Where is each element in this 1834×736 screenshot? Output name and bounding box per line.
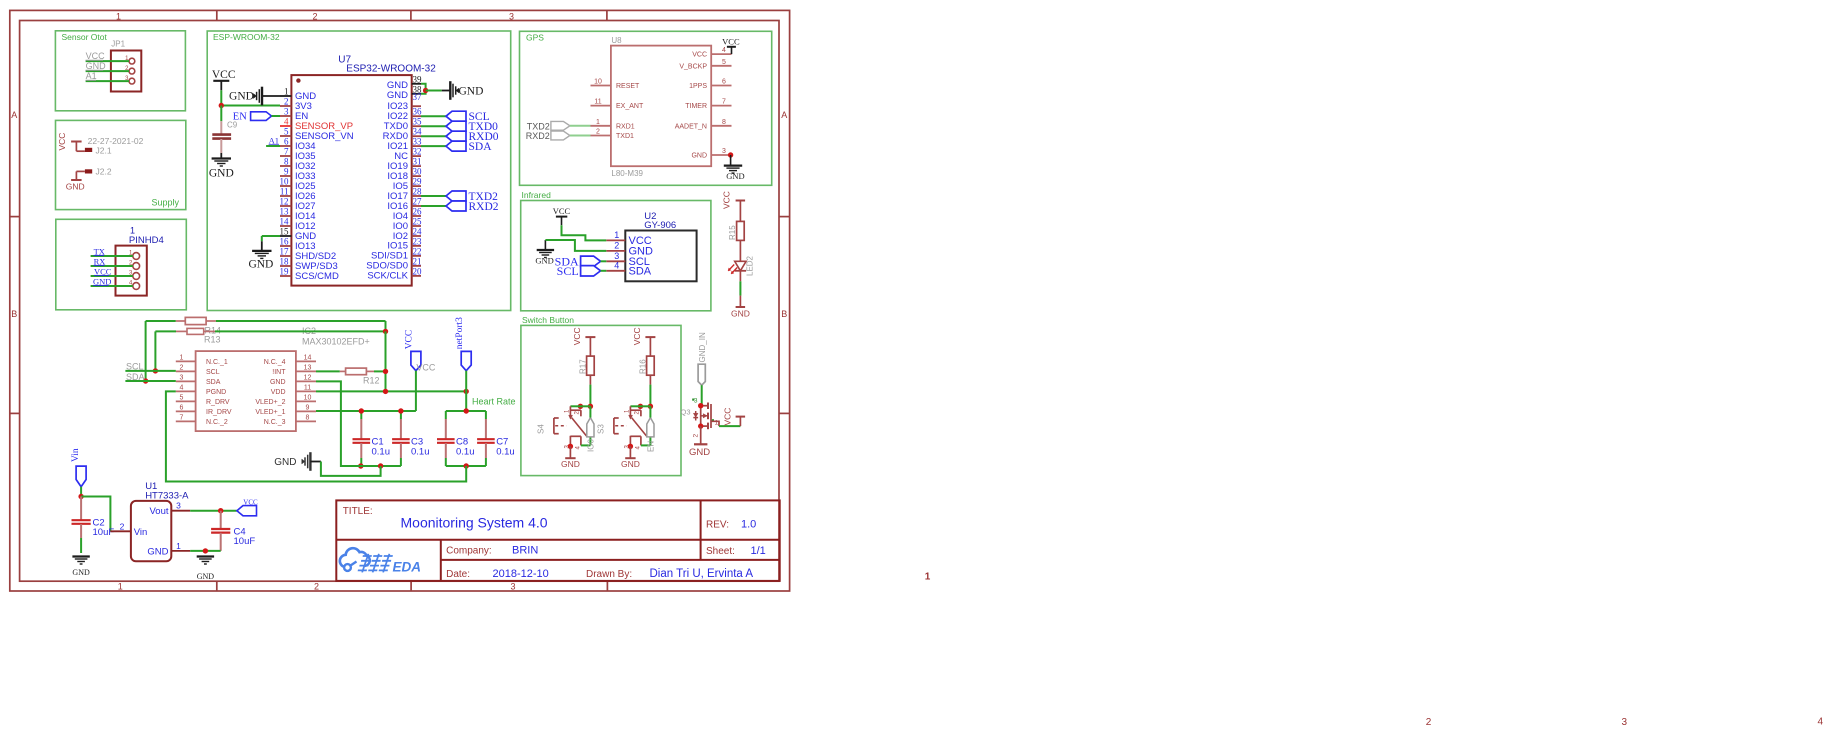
U7 right pins with numbers — [412, 74, 422, 276]
svg-text:GND: GND — [248, 259, 273, 271]
svg-text:3: 3 — [694, 398, 698, 405]
C3 value labels — [411, 437, 430, 458]
section box Supply — [56, 120, 186, 209]
svg-text:netPort3: netPort3 — [455, 317, 465, 349]
net flag EN — [647, 418, 656, 452]
JP1 pin circles and numbers — [125, 56, 135, 84]
svg-text:VDD: VDD — [271, 389, 286, 396]
stray frame number 3 — [1622, 717, 1628, 728]
svg-text:RX: RX — [94, 256, 106, 266]
svg-text:GND: GND — [197, 572, 215, 581]
svg-text:1: 1 — [180, 354, 184, 361]
ground GND (below C9) — [209, 153, 234, 180]
svg-text:5: 5 — [722, 59, 726, 66]
svg-text:VCC: VCC — [722, 191, 732, 209]
svg-text:1: 1 — [614, 230, 619, 240]
junction VDD column bottom — [383, 389, 388, 394]
svg-text:19: 19 — [280, 267, 290, 277]
switch S3 — [597, 406, 648, 449]
svg-text:VCC: VCC — [86, 51, 106, 61]
net flag IO0 — [587, 418, 596, 452]
svg-text:2: 2 — [1426, 717, 1432, 728]
Sheet label and value — [706, 545, 766, 557]
wire JP1 GND — [86, 70, 129, 72]
wire VCC to R15 — [739, 201, 741, 222]
stray frame number 4 — [1818, 716, 1824, 727]
junction Q3 bottom — [698, 423, 703, 428]
wire PINHD4 TX — [91, 255, 133, 257]
svg-text:4: 4 — [722, 47, 726, 54]
wire R16 to switch — [649, 375, 651, 406]
junction netPort3/VDD — [464, 389, 469, 394]
svg-text:10: 10 — [594, 79, 602, 86]
REV label and value — [706, 519, 756, 531]
svg-text:12: 12 — [280, 197, 289, 207]
stray frame number 1 — [925, 572, 931, 583]
Date label and value — [446, 568, 549, 580]
U1 pin names — [134, 506, 169, 557]
svg-text:Sheet:: Sheet: — [706, 546, 735, 557]
svg-text:SCK/CLK: SCK/CLK — [367, 271, 408, 282]
svg-text:GND: GND — [86, 61, 107, 71]
svg-text:24: 24 — [413, 227, 423, 237]
svg-text:Vin: Vin — [134, 527, 148, 538]
svg-text:BRIN: BRIN — [512, 545, 538, 557]
power port GND (supply J2.2) — [66, 180, 85, 192]
svg-text:HT7333-A: HT7333-A — [145, 491, 189, 502]
svg-text:VCC: VCC — [212, 69, 236, 81]
svg-text:A: A — [781, 110, 787, 120]
label Heart Rate — [472, 397, 516, 407]
svg-text:RXD1: RXD1 — [616, 123, 635, 130]
svg-text:SCS/CMD: SCS/CMD — [295, 271, 339, 282]
power port VCC (R16 column) — [632, 327, 655, 345]
svg-text:25: 25 — [413, 217, 423, 227]
svg-text:8: 8 — [284, 157, 289, 167]
svg-text:N.C._4: N.C._4 — [264, 359, 286, 366]
net flag RXD2 (to GPS TXD1) — [526, 131, 591, 141]
wire netPort3 down — [465, 371, 467, 411]
ground GND (heart rate) — [274, 452, 321, 471]
svg-text:GND: GND — [387, 90, 408, 101]
wire IO0 down — [589, 406, 591, 417]
C8 value labels — [456, 437, 475, 458]
wire IC2 pin4 PGND long route — [166, 391, 466, 481]
net flag VCC (Vout) — [237, 499, 258, 516]
svg-text:16: 16 — [280, 237, 290, 247]
wire R15 to LED2 — [739, 240, 741, 261]
wire Vin down — [80, 487, 82, 497]
svg-text:2: 2 — [693, 434, 700, 438]
Company label and value — [446, 545, 538, 557]
svg-text:GND: GND — [459, 86, 484, 98]
svg-text:22: 22 — [413, 246, 422, 256]
svg-text:Vout: Vout — [149, 506, 168, 517]
led LED2 — [728, 255, 755, 276]
power flag VCC (GPS) — [722, 36, 740, 54]
svg-text:0.1u: 0.1u — [496, 447, 515, 458]
svg-text:36: 36 — [413, 107, 423, 117]
wire VCC to R16 — [649, 337, 651, 356]
svg-text:0.1u: 0.1u — [372, 447, 391, 458]
date note 22-27-2021-02 — [88, 136, 144, 146]
svg-text:TX: TX — [94, 246, 105, 256]
section box Sensor Otot — [55, 31, 185, 111]
regulator U1 HT7333-A body — [131, 481, 189, 561]
svg-text:2: 2 — [614, 241, 619, 251]
svg-text:GPS: GPS — [526, 33, 544, 43]
connector JP1 — [111, 40, 141, 92]
wire GND to U2 pin2 — [545, 240, 606, 251]
wire Vout to VCC flag — [190, 510, 237, 512]
svg-text:B: B — [11, 309, 17, 319]
svg-text:3: 3 — [1622, 717, 1628, 728]
resistor R12 (on !INT) — [316, 368, 386, 385]
net label A1 (JP1) — [86, 71, 97, 81]
wire C8/C7 bottom rail — [446, 465, 486, 467]
svg-text:1: 1 — [925, 572, 931, 583]
svg-text:0.1u: 0.1u — [456, 447, 475, 458]
svg-text:10: 10 — [304, 394, 312, 401]
svg-text:S4: S4 — [537, 424, 546, 434]
wire LED2 to GND — [739, 271, 741, 307]
svg-text:26: 26 — [413, 207, 423, 217]
svg-text:15: 15 — [280, 227, 290, 237]
junction U8 pin3 GND — [728, 152, 733, 157]
section box ESP-WROOM-32 — [207, 31, 511, 311]
capacitor C1 — [353, 411, 371, 466]
wire IC2 pin12 GND down — [316, 381, 361, 466]
svg-text:J2.2: J2.2 — [96, 167, 112, 177]
frame column ticks — [217, 10, 608, 591]
wire switch pin4 (S3) — [641, 437, 651, 445]
junction Vout/C4 — [218, 508, 223, 513]
svg-text:11: 11 — [594, 99, 601, 106]
svg-text:Moonitoring System 4.0: Moonitoring System 4.0 — [401, 515, 548, 531]
junction switch bottom (S3) — [628, 444, 633, 449]
svg-text:GND: GND — [274, 457, 296, 468]
wire JP1 A1 — [86, 80, 129, 82]
U7 right pin names — [366, 80, 408, 282]
svg-text:2: 2 — [284, 97, 289, 107]
svg-text:Date:: Date: — [446, 569, 470, 580]
svg-text:33: 33 — [413, 137, 423, 147]
svg-text:3: 3 — [510, 582, 515, 592]
svg-text:1PPS: 1PPS — [689, 83, 707, 90]
svg-text:!INT: !INT — [272, 369, 286, 376]
ground GND (U7 pin1) — [229, 87, 280, 106]
net flag TXD0 (U7 pin35) — [421, 121, 498, 133]
svg-text:39: 39 — [413, 74, 423, 84]
svg-text:N.C._3: N.C._3 — [264, 419, 286, 426]
net flag TXD2 (to GPS RXD1) — [527, 121, 591, 131]
wire switch pins 1-2 (S3) — [630, 405, 650, 407]
svg-text:6: 6 — [722, 79, 726, 86]
svg-text:VCC: VCC — [723, 408, 733, 426]
svg-text:VCC: VCC — [405, 330, 415, 350]
wire R14 right to VDD column — [216, 321, 386, 331]
svg-text:Company:: Company: — [446, 546, 492, 557]
svg-text:EX_ANT: EX_ANT — [616, 103, 644, 110]
svg-text:EN: EN — [233, 112, 247, 123]
U1 pin 2 stub — [110, 522, 130, 532]
svg-text:28: 28 — [413, 187, 423, 197]
power port GND (S3 column) — [621, 446, 640, 469]
svg-text:J2.1: J2.1 — [96, 146, 112, 156]
svg-text:GND: GND — [731, 309, 750, 319]
svg-text:TIMER: TIMER — [685, 103, 707, 110]
U7 left pins with numbers — [280, 87, 292, 277]
svg-text:EDA: EDA — [393, 560, 422, 575]
svg-text:3: 3 — [180, 374, 184, 381]
U7 left pin names — [295, 91, 354, 282]
svg-text:Dian Tri U, Ervinta A: Dian Tri U, Ervinta A — [650, 568, 754, 580]
junction Q3 top — [698, 403, 703, 408]
svg-text:2: 2 — [120, 522, 125, 532]
power port VCC (LED column) — [722, 191, 746, 209]
svg-text:R13: R13 — [204, 335, 221, 345]
net flag Vin — [71, 448, 86, 487]
net flag VCC (heart rate) — [405, 330, 436, 373]
sensor U2 GY-906 body — [625, 211, 696, 281]
op-amp U7 ESP32-WROOM-32 body — [291, 55, 436, 286]
C4 value labels — [234, 527, 256, 548]
U8 left pins with numbers — [591, 79, 611, 136]
wire VCC flag down to VLED rail — [415, 371, 417, 411]
net flag SCL (U7 pin36) — [421, 111, 490, 123]
net flag SDA (U7 pin33) — [421, 141, 492, 153]
svg-text:A: A — [11, 110, 17, 120]
svg-text:1: 1 — [715, 419, 719, 426]
wire Q3 to VCC — [711, 417, 740, 427]
U2 pins with numbers — [606, 230, 625, 271]
svg-text:SCL: SCL — [557, 264, 579, 278]
wire Vin to U1 pin2 — [81, 497, 110, 532]
wire switch pin4 (S4) — [581, 437, 591, 445]
svg-text:Supply: Supply — [152, 198, 180, 208]
svg-text:LED2: LED2 — [746, 255, 755, 276]
svg-text:GND: GND — [209, 168, 234, 180]
wire C8/C7 top rail — [446, 410, 486, 412]
svg-text:10uF: 10uF — [234, 536, 256, 547]
U2 pin names — [629, 235, 654, 277]
svg-text:GND: GND — [147, 547, 168, 558]
wire IC2 pin9 VLED rail — [316, 410, 416, 412]
svg-text:1: 1 — [130, 226, 135, 236]
C7 value labels — [496, 437, 515, 458]
svg-text:3: 3 — [614, 251, 619, 261]
svg-text:VCC: VCC — [94, 266, 112, 276]
svg-text:0.1u: 0.1u — [411, 447, 430, 458]
wire C1/C3 bottom rail — [341, 465, 401, 467]
junction R12/VDD column — [383, 369, 388, 374]
svg-text:8: 8 — [306, 414, 310, 421]
C2 value labels — [93, 518, 115, 539]
svg-text:29: 29 — [413, 177, 423, 187]
svg-text:B: B — [781, 309, 787, 319]
svg-text:VCC: VCC — [572, 327, 582, 345]
capacitor C9 — [212, 106, 237, 154]
svg-text:34: 34 — [413, 127, 423, 137]
connector pin J2.2 — [76, 167, 111, 181]
svg-text:Vin: Vin — [71, 448, 81, 462]
net flag RXD0 (U7 pin34) — [421, 131, 499, 143]
svg-text:V_BCKP: V_BCKP — [679, 63, 707, 70]
net label SCL (IC2) — [126, 362, 144, 372]
net flag SDA (to U2 SCL) — [555, 254, 607, 268]
power port VCC (R17 column) — [572, 327, 595, 345]
svg-text:VCC: VCC — [57, 133, 67, 151]
wire VCC to U2 pin1 — [562, 225, 607, 240]
svg-text:Infrared: Infrared — [522, 190, 552, 200]
svg-text:1.0: 1.0 — [741, 519, 756, 531]
svg-text:37: 37 — [413, 92, 423, 102]
svg-text:EN: EN — [647, 441, 656, 452]
svg-text:SDA: SDA — [206, 379, 221, 386]
svg-text:GY-906: GY-906 — [644, 220, 676, 231]
svg-text:3: 3 — [284, 107, 289, 117]
svg-text:2: 2 — [312, 12, 317, 22]
svg-text:GND_IN: GND_IN — [698, 332, 707, 362]
frame row labels — [11, 110, 787, 319]
svg-text:1: 1 — [118, 582, 123, 592]
title block frame — [336, 500, 779, 581]
wire IC2 pin11 VDD — [316, 390, 466, 392]
wire R14 left to SDA — [145, 321, 147, 381]
wire PINHD4 RX — [91, 265, 133, 267]
svg-text:4: 4 — [284, 117, 289, 127]
svg-text:GND: GND — [621, 459, 640, 469]
svg-text:RESET: RESET — [616, 83, 640, 90]
net flag netPort3 — [455, 317, 471, 371]
junction GND jog on rail — [378, 463, 383, 468]
wire R13 left to SCL — [154, 331, 156, 371]
net flag GND_IN — [698, 332, 707, 385]
ground GND (U1) — [197, 557, 215, 582]
junction R13/R14 column — [383, 329, 388, 334]
svg-text:PGND: PGND — [206, 389, 226, 396]
capacitor C2 — [72, 497, 91, 554]
svg-text:10uF: 10uF — [93, 527, 115, 538]
connector 1 PINHD4 — [116, 226, 164, 296]
svg-text:4: 4 — [180, 384, 184, 391]
junction switch bottom (S4) — [568, 444, 573, 449]
junction C1 bottom — [358, 463, 363, 468]
svg-text:17: 17 — [280, 247, 290, 257]
wire GND pin to C4 — [190, 550, 221, 552]
U8 right pins with numbers — [711, 47, 731, 155]
svg-text:7: 7 — [722, 99, 726, 106]
title block TITLE text — [343, 506, 373, 517]
frame column labels top — [116, 12, 514, 22]
svg-text:TXD1: TXD1 — [616, 133, 634, 140]
svg-text:GND: GND — [387, 80, 408, 91]
svg-text:VCC: VCC — [416, 363, 436, 373]
svg-text:VCC: VCC — [632, 327, 642, 345]
svg-text:SDA: SDA — [469, 141, 493, 153]
capacitor C7 — [477, 411, 495, 466]
net label A1 (U7 pin6) — [266, 136, 280, 147]
ground GND (U7 pin15) — [248, 236, 280, 271]
svg-text:31: 31 — [413, 157, 422, 167]
C1 value labels — [372, 437, 391, 458]
svg-text:REV:: REV: — [706, 520, 729, 531]
svg-text:13: 13 — [304, 364, 312, 371]
junction R13/SCL — [153, 368, 158, 373]
connector pin J2.1 — [76, 146, 111, 156]
switch S4 — [537, 406, 588, 449]
net flag RXD2 (U7 pin27) — [421, 201, 499, 213]
junction C1 top — [359, 408, 364, 413]
svg-text:VCC: VCC — [692, 52, 707, 59]
junction switch top (S3) — [638, 404, 653, 409]
svg-text:R16: R16 — [638, 359, 647, 374]
frame column labels bottom — [118, 582, 516, 592]
svg-text:GND: GND — [689, 447, 710, 458]
svg-text:4: 4 — [614, 261, 619, 271]
svg-text:3: 3 — [176, 501, 181, 511]
ground GND (Infrared) — [535, 240, 554, 266]
svg-text:2018-12-10: 2018-12-10 — [493, 568, 549, 580]
title Moonitoring System 4.0 — [401, 515, 548, 531]
svg-text:4: 4 — [1818, 716, 1824, 727]
power port VCC (supply J2.1) — [57, 133, 82, 152]
svg-text:Q3: Q3 — [680, 408, 690, 417]
svg-text:9: 9 — [284, 167, 289, 177]
svg-text:GND: GND — [535, 256, 553, 266]
junction Vin/C2 — [78, 494, 83, 499]
svg-text:A1: A1 — [269, 136, 279, 146]
svg-text:R_DRV: R_DRV — [206, 399, 230, 406]
junction C3 top — [398, 408, 403, 413]
svg-text:TXD2: TXD2 — [527, 121, 550, 131]
gps module U8 L80-M39 body — [611, 36, 711, 178]
PINHD4 pin circles and numbers — [129, 251, 140, 290]
svg-text:1: 1 — [176, 541, 181, 551]
svg-text:IR_DRV: IR_DRV — [206, 409, 232, 416]
Q3 pin 1 label — [712, 419, 719, 426]
svg-text:1: 1 — [116, 12, 121, 22]
svg-text:Drawn By:: Drawn By: — [586, 569, 632, 580]
svg-text:6: 6 — [284, 137, 289, 147]
svg-text:N.C._2: N.C._2 — [206, 419, 228, 426]
capacitor C4 — [211, 511, 230, 551]
wire VCC to R17 — [589, 337, 591, 356]
junction switch top (S4) — [578, 404, 593, 409]
U8 left pin names — [616, 83, 644, 140]
wire PINHD4 GND — [91, 285, 133, 287]
svg-text:MAX30102EFD+: MAX30102EFD+ — [302, 337, 370, 347]
svg-text:Heart Rate: Heart Rate — [472, 397, 516, 407]
sheet border frame — [10, 10, 790, 591]
svg-text:1: 1 — [284, 87, 289, 97]
U1 pin 3 stub — [171, 501, 190, 511]
svg-text:2: 2 — [314, 582, 319, 592]
svg-text:3: 3 — [722, 148, 726, 155]
logo cloud EDA — [340, 548, 421, 574]
svg-text:PINHD4: PINHD4 — [129, 235, 164, 246]
svg-text:12: 12 — [304, 374, 312, 381]
svg-text:GND: GND — [229, 91, 254, 103]
wire PINHD4 VCC — [91, 275, 133, 277]
svg-text:21: 21 — [413, 256, 422, 266]
svg-text:30: 30 — [413, 167, 423, 177]
section box Switch Button — [521, 315, 681, 476]
svg-text:VCC: VCC — [553, 206, 571, 216]
Drawn By label and value — [586, 568, 753, 580]
power port GND (Q3) — [689, 426, 710, 458]
section box GPS — [520, 31, 772, 185]
